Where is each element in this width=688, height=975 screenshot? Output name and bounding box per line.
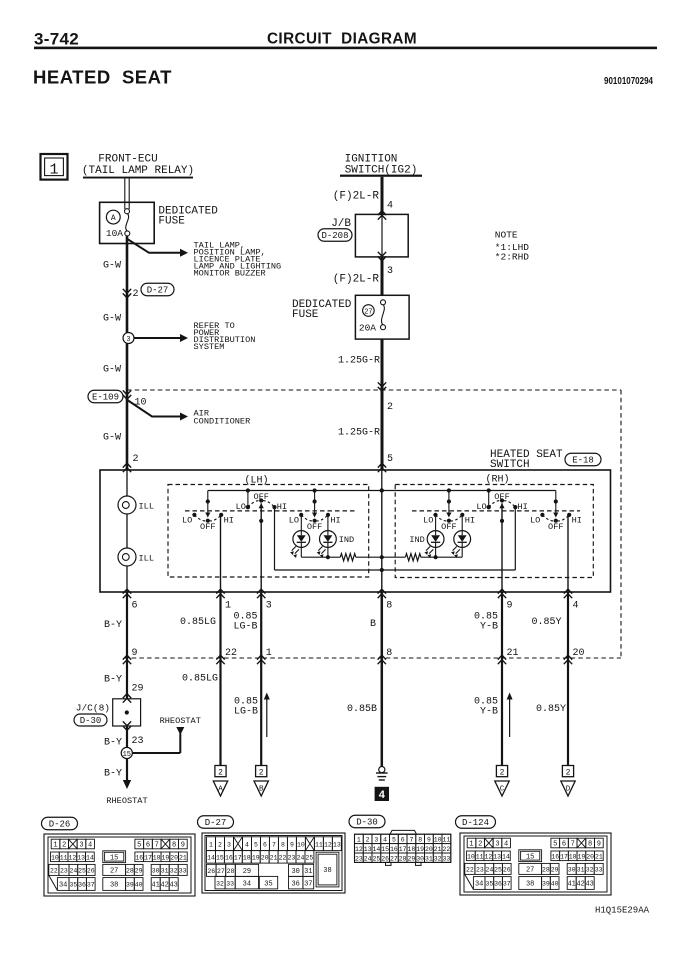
connector D-26 pinout <box>44 834 195 896</box>
svg-text:18: 18 <box>407 846 415 853</box>
svg-text:B-Y: B-Y <box>104 675 122 686</box>
wire double line from FRONT-ECU <box>124 179 126 210</box>
wire 0.85Y pin4 down <box>567 592 569 766</box>
svg-text:24: 24 <box>364 855 372 862</box>
svg-text:2: 2 <box>259 769 264 778</box>
svg-text:(F)2L-R: (F)2L-R <box>333 274 380 286</box>
svg-text:22: 22 <box>279 854 287 861</box>
svg-text:OFF: OFF <box>200 522 215 532</box>
svg-text:12: 12 <box>68 854 76 861</box>
svg-text:19: 19 <box>252 854 260 861</box>
svg-text:14: 14 <box>502 853 510 860</box>
svg-text:2: 2 <box>133 454 139 465</box>
connector D-27 label <box>198 816 234 829</box>
svg-text:D-30: D-30 <box>356 818 378 828</box>
svg-text:0.85Y: 0.85Y <box>531 617 561 628</box>
connector crossing pin 2 D-27 <box>123 289 131 298</box>
svg-text:31: 31 <box>577 867 585 874</box>
svg-text:IND: IND <box>339 535 354 545</box>
svg-text:MONITOR BUZZER: MONITOR BUZZER <box>194 269 266 279</box>
wire switch supply bus <box>208 490 556 492</box>
wire B-Y pin6 down <box>126 592 128 699</box>
svg-text:D: D <box>566 786 571 794</box>
svg-text:D-208: D-208 <box>321 231 348 241</box>
svg-text:B-Y: B-Y <box>104 620 122 631</box>
switch pole RH selector (main) <box>476 492 527 592</box>
svg-text:37: 37 <box>503 881 511 888</box>
svg-text:8: 8 <box>386 648 392 659</box>
svg-text:8: 8 <box>418 837 422 844</box>
svg-text:32: 32 <box>434 855 442 862</box>
svg-text:1: 1 <box>357 837 361 844</box>
svg-text:0.85Y: 0.85Y <box>536 704 566 715</box>
wire LH LED cathodes to resistor <box>300 547 302 557</box>
svg-text:4: 4 <box>504 841 508 849</box>
svg-text:6: 6 <box>146 842 150 850</box>
chassis ground 4 <box>375 767 389 802</box>
svg-text:30: 30 <box>152 868 160 875</box>
svg-text:6: 6 <box>263 841 267 848</box>
svg-text:1.25G-R: 1.25G-R <box>338 356 380 367</box>
svg-text:38: 38 <box>526 881 534 889</box>
svg-text:31: 31 <box>304 868 312 876</box>
svg-text:16: 16 <box>225 854 233 861</box>
svg-text:35: 35 <box>485 881 493 888</box>
svg-text:0.85LG: 0.85LG <box>180 617 216 628</box>
svg-text:5: 5 <box>254 841 258 848</box>
svg-text:1: 1 <box>469 841 473 849</box>
svg-text:17: 17 <box>560 853 568 860</box>
svg-text:3: 3 <box>387 266 393 277</box>
svg-text:27: 27 <box>217 868 225 875</box>
svg-text:HI: HI <box>518 502 528 512</box>
svg-text:ILL: ILL <box>139 502 154 512</box>
LH switch dashed enclosure <box>168 485 369 578</box>
svg-text:3: 3 <box>227 841 231 848</box>
svg-text:26: 26 <box>207 868 215 875</box>
svg-text:19: 19 <box>162 854 170 861</box>
svg-text:21: 21 <box>595 853 603 860</box>
svg-text:8: 8 <box>588 841 592 849</box>
svg-text:21: 21 <box>270 854 278 861</box>
svg-text:HI: HI <box>330 516 340 526</box>
svg-text:B: B <box>370 619 376 630</box>
svg-text:11: 11 <box>476 853 484 860</box>
svg-text:22: 22 <box>443 846 451 853</box>
junction block J/B box <box>355 214 408 257</box>
svg-text:FUSE: FUSE <box>158 216 185 228</box>
svg-text:23: 23 <box>60 868 68 875</box>
wire HI return bus to ground node <box>275 569 516 571</box>
svg-text:2: 2 <box>62 842 66 850</box>
svg-text:28: 28 <box>227 868 235 875</box>
svg-text:23: 23 <box>132 736 144 747</box>
svg-text:9: 9 <box>597 841 601 849</box>
svg-text:24: 24 <box>297 854 305 861</box>
svg-text:3: 3 <box>374 837 378 844</box>
connector E-18 <box>565 453 601 466</box>
svg-text:14: 14 <box>372 846 380 853</box>
wire 0.85LG pin1 down <box>219 592 221 766</box>
heated seat switch box E-18 <box>100 470 611 592</box>
svg-text:35: 35 <box>264 880 272 888</box>
svg-text:30: 30 <box>416 855 424 862</box>
svg-text:3: 3 <box>79 842 83 850</box>
svg-text:OFF: OFF <box>253 492 268 502</box>
svg-text:D-124: D-124 <box>462 818 489 828</box>
svg-text:18: 18 <box>153 854 161 861</box>
svg-text:HI: HI <box>277 502 287 512</box>
svg-text:16: 16 <box>135 854 143 861</box>
svg-text:22: 22 <box>225 648 237 659</box>
svg-text:35: 35 <box>69 882 77 889</box>
svg-text:C: C <box>500 786 505 794</box>
svg-text:25: 25 <box>372 855 380 862</box>
wire G-W main left vertical <box>126 236 129 470</box>
svg-text:13: 13 <box>333 841 341 848</box>
svg-text:27: 27 <box>526 867 534 875</box>
svg-text:11: 11 <box>443 837 451 844</box>
svg-text:Y-B: Y-B <box>480 707 498 718</box>
svg-text:HEATED SEAT: HEATED SEAT <box>33 67 172 88</box>
svg-text:23: 23 <box>355 855 363 862</box>
svg-text:26: 26 <box>503 867 511 874</box>
svg-text:19: 19 <box>578 853 586 860</box>
J/C crossing top <box>123 694 131 703</box>
svg-text:22: 22 <box>466 867 474 874</box>
svg-text:G-W: G-W <box>103 365 121 376</box>
J/B crossing bottom <box>378 252 386 261</box>
wire to rheostat <box>126 759 128 781</box>
svg-text:33: 33 <box>595 867 603 874</box>
ground terminal B <box>254 766 268 797</box>
resistor LH LED dropping <box>340 554 356 561</box>
svg-text:37: 37 <box>304 880 312 888</box>
svg-text:LO: LO <box>476 502 486 512</box>
svg-text:41: 41 <box>151 882 159 890</box>
svg-text:23: 23 <box>476 867 484 874</box>
LED LH HI indicator <box>317 531 354 558</box>
svg-text:23: 23 <box>288 854 296 861</box>
svg-text:14: 14 <box>207 854 215 861</box>
svg-text:1.25G-R: 1.25G-R <box>338 428 380 439</box>
switch linkage dashed LH <box>185 510 355 512</box>
svg-text:0.85LG: 0.85LG <box>182 674 218 685</box>
wire LH heater HI to pin 1 <box>220 515 222 592</box>
svg-text:7: 7 <box>409 837 413 844</box>
wire RH selector LO to bus <box>488 491 490 508</box>
svg-text:15: 15 <box>526 853 534 861</box>
svg-text:33: 33 <box>179 868 187 875</box>
svg-text:1: 1 <box>209 841 213 848</box>
svg-text:ILL: ILL <box>139 554 154 564</box>
svg-text:39: 39 <box>542 881 550 888</box>
svg-text:42: 42 <box>160 882 168 890</box>
svg-text:D-26: D-26 <box>49 820 71 830</box>
svg-text:15: 15 <box>110 854 118 862</box>
svg-text:E-109: E-109 <box>92 393 119 403</box>
svg-text:10: 10 <box>434 837 442 844</box>
svg-text:17: 17 <box>399 846 407 853</box>
svg-text:CONDITIONER: CONDITIONER <box>194 417 251 427</box>
connector D-30 oval at J/C <box>74 714 107 726</box>
fuse F1 element <box>125 209 130 214</box>
wire 0.85LG-B pin3 down <box>260 592 262 766</box>
svg-text:38: 38 <box>110 882 118 890</box>
J/B crossing top <box>378 211 386 220</box>
RH switch dashed enclosure <box>395 485 593 578</box>
svg-text:19: 19 <box>416 846 424 853</box>
wire RH LED HI feed <box>461 515 463 531</box>
svg-text:B-Y: B-Y <box>104 769 122 780</box>
svg-text:10: 10 <box>297 841 305 848</box>
fuse F1 dedicated fuse 10A box <box>100 202 155 243</box>
svg-text:FRONT-ECU: FRONT-ECU <box>98 154 157 166</box>
svg-text:2: 2 <box>133 289 139 300</box>
svg-text:6: 6 <box>562 841 566 849</box>
svg-text:Y-B: Y-B <box>480 622 498 633</box>
connector E-109 crossing pin 10 <box>88 390 123 403</box>
svg-text:*2:RHD: *2:RHD <box>495 252 530 263</box>
svg-text:31: 31 <box>161 868 169 875</box>
header rule <box>34 47 657 50</box>
svg-text:43: 43 <box>169 882 177 890</box>
svg-text:13: 13 <box>493 853 501 860</box>
node RH indicator post on bus <box>447 488 451 492</box>
svg-text:(LH): (LH) <box>244 475 268 487</box>
junction node 3 power distribution <box>123 333 134 344</box>
svg-text:29: 29 <box>243 868 251 876</box>
svg-text:15: 15 <box>123 751 131 759</box>
node LH indicator post on bus <box>313 488 317 492</box>
svg-text:41: 41 <box>567 881 575 889</box>
svg-text:32: 32 <box>586 867 594 874</box>
svg-text:7: 7 <box>571 841 575 849</box>
svg-text:1: 1 <box>266 648 272 659</box>
svg-text:42: 42 <box>576 881 584 889</box>
svg-text:2: 2 <box>478 841 482 849</box>
svg-text:25: 25 <box>78 868 86 875</box>
svg-text:25: 25 <box>306 854 314 861</box>
svg-text:4: 4 <box>387 201 393 212</box>
svg-text:LO: LO <box>236 502 246 512</box>
svg-text:OFF: OFF <box>494 492 509 502</box>
svg-text:26: 26 <box>87 868 95 875</box>
LED LH LO indicator <box>290 531 310 558</box>
fuse F2 number 27 <box>363 305 375 317</box>
svg-text:LO: LO <box>289 516 299 526</box>
svg-text:25: 25 <box>494 867 502 874</box>
svg-text:9: 9 <box>181 842 185 850</box>
svg-text:6: 6 <box>132 601 138 612</box>
svg-text:RHEOSTAT: RHEOSTAT <box>106 796 147 806</box>
svg-text:10A: 10A <box>106 228 123 239</box>
wire RH LED cathodes <box>461 547 463 557</box>
svg-text:8: 8 <box>386 601 392 612</box>
svg-text:LG-B: LG-B <box>233 622 257 633</box>
svg-text:4: 4 <box>573 601 579 612</box>
svg-text:HI: HI <box>465 516 475 526</box>
svg-text:32: 32 <box>170 868 178 875</box>
svg-text:90101070294: 90101070294 <box>604 76 653 87</box>
fuse F2 dedicated fuse 20A box <box>355 295 409 339</box>
svg-text:20A: 20A <box>359 323 376 334</box>
wire illumination through lamps <box>126 470 128 592</box>
dashed harness crossing right pin 2 <box>378 382 386 391</box>
svg-text:43: 43 <box>585 881 593 889</box>
svg-text:33: 33 <box>443 855 451 862</box>
svg-text:5: 5 <box>137 842 141 850</box>
sheet index box 1 <box>41 154 68 180</box>
svg-text:10: 10 <box>51 854 59 861</box>
svg-text:J/C(8): J/C(8) <box>76 703 110 714</box>
svg-text:16: 16 <box>551 853 559 860</box>
wire LH LED LO feed <box>300 515 302 531</box>
svg-text:CIRCUIT DIAGRAM: CIRCUIT DIAGRAM <box>267 31 417 48</box>
connector D-124 label <box>456 816 496 829</box>
svg-text:12: 12 <box>324 841 332 848</box>
svg-text:34: 34 <box>59 882 67 890</box>
svg-text:39: 39 <box>126 882 134 889</box>
connector D-30 pinout <box>355 830 451 865</box>
svg-text:5: 5 <box>553 841 557 849</box>
wire (F)2L-R from ignition switch <box>381 177 384 215</box>
dashed crossing chevrons and pins <box>123 655 131 664</box>
svg-text:D-30: D-30 <box>80 716 102 726</box>
svg-text:9: 9 <box>427 837 431 844</box>
wire RH heater HI to pin 4 <box>567 515 569 592</box>
svg-text:13: 13 <box>364 846 372 853</box>
svg-text:4: 4 <box>379 789 386 801</box>
svg-text:24: 24 <box>485 867 493 874</box>
switch pole LH indicator <box>289 491 341 533</box>
svg-text:20: 20 <box>261 854 269 861</box>
svg-text:36: 36 <box>291 880 299 888</box>
svg-text:40: 40 <box>551 881 559 888</box>
svg-text:29: 29 <box>407 855 415 862</box>
svg-text:9: 9 <box>132 648 138 659</box>
svg-text:2: 2 <box>366 837 370 844</box>
svg-text:20: 20 <box>425 846 433 853</box>
wire supply return node to RH resistor <box>382 556 406 558</box>
svg-text:18: 18 <box>569 853 577 860</box>
svg-text:7: 7 <box>272 841 276 848</box>
dashed harness boundary <box>127 389 621 391</box>
svg-text:30: 30 <box>291 868 299 876</box>
svg-text:HI: HI <box>224 516 234 526</box>
LED RH LO indicator <box>409 531 444 558</box>
branch arrow to air conditioner <box>127 400 180 417</box>
svg-text:29: 29 <box>135 868 143 875</box>
wire 0.85B pin8 down <box>381 592 384 767</box>
wire main ground feed inside switch <box>381 491 383 593</box>
svg-text:4: 4 <box>88 842 92 850</box>
svg-text:3: 3 <box>266 601 272 612</box>
connector D-124 pinout <box>460 833 611 895</box>
svg-text:28: 28 <box>542 867 550 874</box>
svg-text:10: 10 <box>467 853 475 860</box>
svg-text:(TAIL LAMP RELAY): (TAIL LAMP RELAY) <box>82 165 194 177</box>
svg-text:12: 12 <box>355 846 363 853</box>
svg-text:RHEOSTAT: RHEOSTAT <box>160 716 201 726</box>
LED RH HI indicator <box>451 531 471 558</box>
svg-text:20: 20 <box>586 853 594 860</box>
switch linkage dashed RH <box>412 510 580 512</box>
svg-text:27: 27 <box>110 868 118 876</box>
svg-text:20: 20 <box>573 648 585 659</box>
wire 0.85Y-B pin9 down <box>501 592 503 766</box>
wire ignition feed into switch <box>381 470 383 491</box>
svg-text:LO: LO <box>530 516 540 526</box>
branch arrow to tail lamp loads <box>127 239 180 253</box>
svg-text:13: 13 <box>77 854 85 861</box>
svg-text:15: 15 <box>381 846 389 853</box>
svg-text:32: 32 <box>216 880 224 887</box>
svg-text:16: 16 <box>390 846 398 853</box>
svg-text:(F)2L-R: (F)2L-R <box>333 191 380 203</box>
svg-text:IND: IND <box>409 535 424 545</box>
svg-text:4: 4 <box>245 841 249 848</box>
svg-text:G-W: G-W <box>103 433 121 444</box>
ground terminal D <box>561 766 575 797</box>
connector D-30 label <box>349 815 385 828</box>
svg-text:2: 2 <box>387 402 393 413</box>
connector D-26 label <box>42 817 78 830</box>
svg-text:OFF: OFF <box>548 522 563 532</box>
svg-text:G-W: G-W <box>103 261 121 272</box>
svg-text:21: 21 <box>179 854 187 861</box>
J/C crossing bottom <box>123 721 131 730</box>
svg-text:7: 7 <box>155 842 159 850</box>
svg-text:30: 30 <box>568 867 576 874</box>
svg-text:8: 8 <box>172 842 176 850</box>
svg-text:27: 27 <box>364 308 372 316</box>
svg-text:9: 9 <box>290 841 294 848</box>
wire LH resistor to supply return node <box>356 556 382 558</box>
svg-text:5: 5 <box>387 454 393 465</box>
wire LH selector HI down to return bus <box>274 507 276 570</box>
svg-text:2: 2 <box>500 769 505 778</box>
svg-text:36: 36 <box>78 882 86 889</box>
svg-text:4: 4 <box>383 837 387 844</box>
current direction arrow LG-B <box>266 698 268 737</box>
svg-text:22: 22 <box>50 868 58 875</box>
wire LH selector LO to bus <box>247 491 249 508</box>
svg-text:SYSTEM: SYSTEM <box>194 342 225 352</box>
svg-text:2: 2 <box>566 769 571 778</box>
svg-text:A: A <box>111 214 116 223</box>
wire 1.25G-R fuse to switch <box>381 339 384 470</box>
svg-text:6: 6 <box>401 837 405 844</box>
svg-text:21: 21 <box>434 846 442 853</box>
wire RH LED LO feed <box>435 515 437 531</box>
svg-text:LO: LO <box>182 516 192 526</box>
svg-text:D-27: D-27 <box>147 286 169 296</box>
svg-text:1: 1 <box>225 601 231 612</box>
svg-text:D-27: D-27 <box>205 818 227 828</box>
svg-text:18: 18 <box>243 854 251 861</box>
svg-text:40: 40 <box>135 882 143 889</box>
lamp ILL 2 <box>118 548 136 566</box>
current direction arrow Y-B <box>509 698 511 737</box>
svg-text:B-Y: B-Y <box>104 738 122 749</box>
svg-text:17: 17 <box>234 854 242 861</box>
svg-text:G-W: G-W <box>103 314 121 325</box>
wire LH LED HI feed <box>327 515 329 531</box>
svg-text:36: 36 <box>494 881 502 888</box>
switch pole LH heater (LO-OFF-HI) <box>182 491 234 533</box>
svg-text:15: 15 <box>216 854 224 861</box>
